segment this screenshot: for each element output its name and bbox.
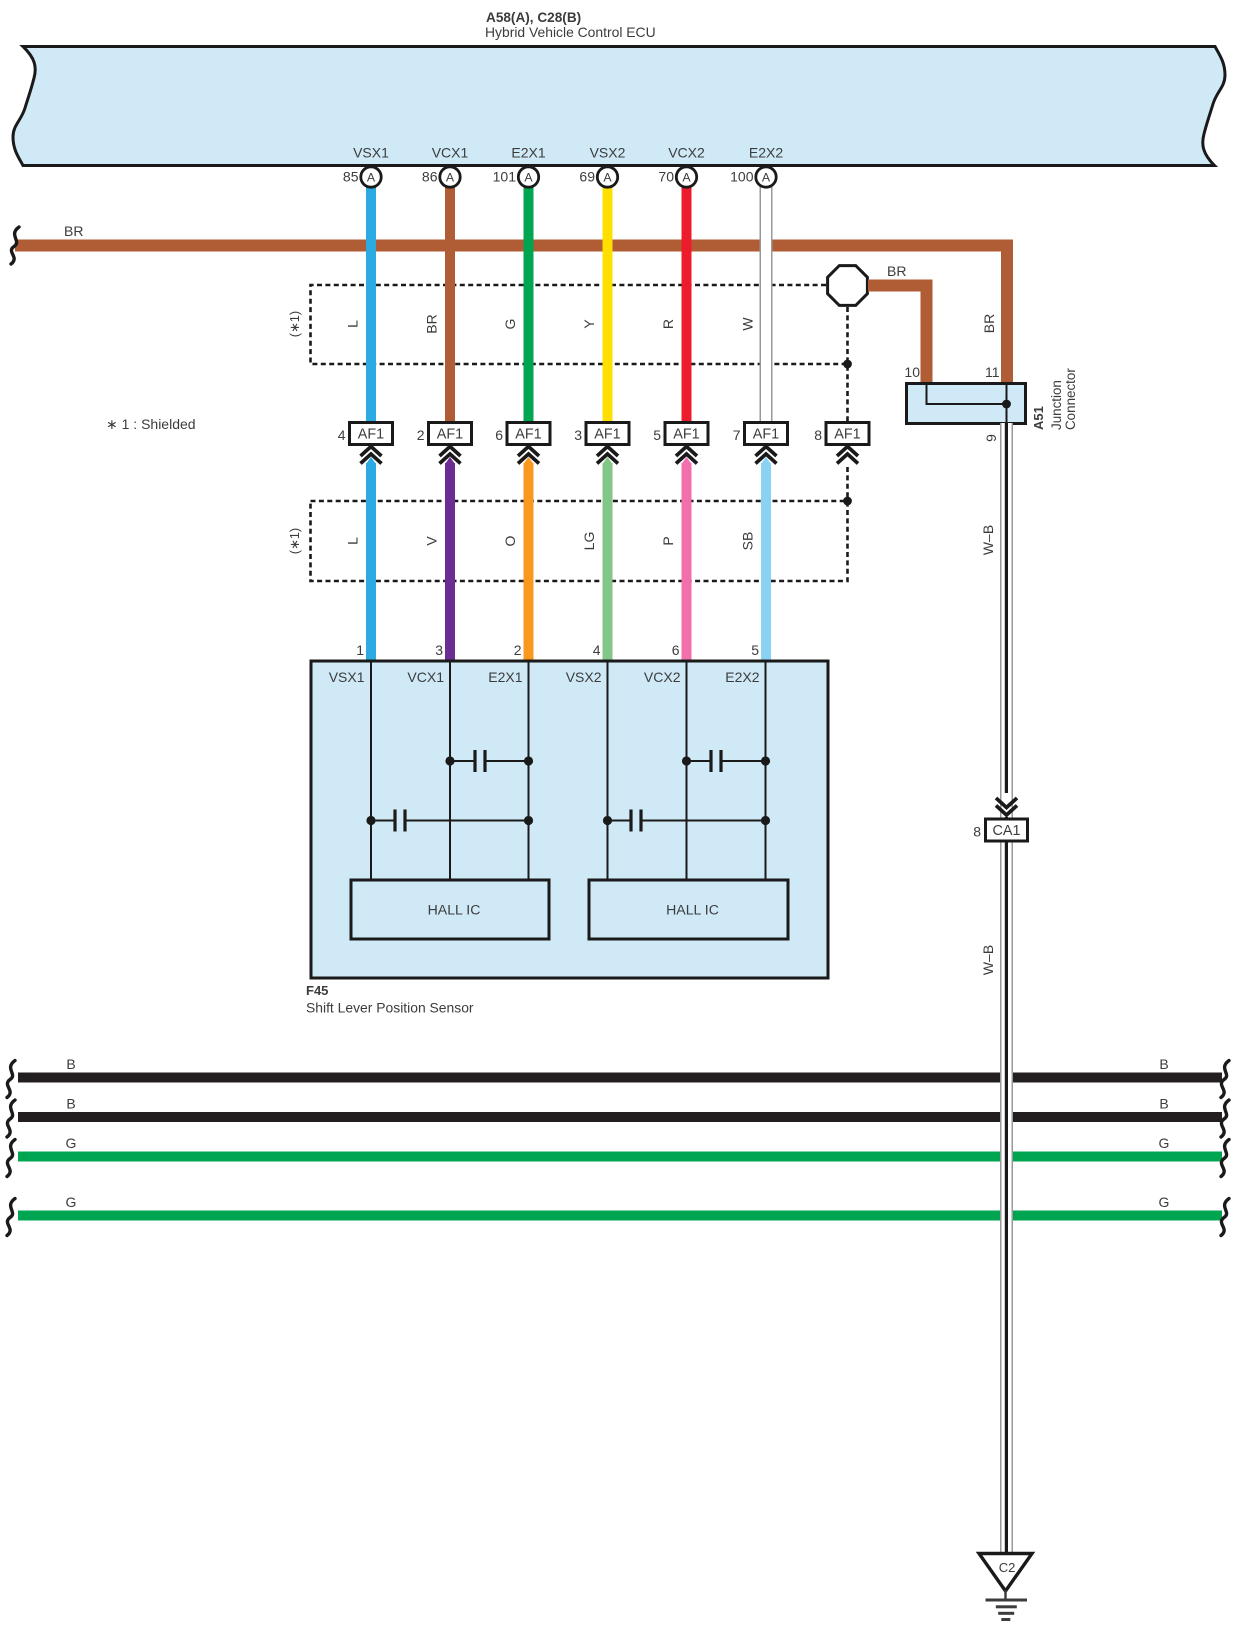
connector AF1 pin 4 bbox=[338, 423, 393, 445]
svg-text:E2X1: E2X1 bbox=[488, 669, 522, 685]
sensor internal wire for E2X1 bbox=[528, 661, 530, 880]
note *1 : Shielded bbox=[106, 416, 196, 432]
svg-text:G: G bbox=[66, 1135, 77, 1151]
squiggle left end of B bus 2 bbox=[7, 1100, 15, 1137]
svg-text:8: 8 bbox=[973, 824, 981, 840]
svg-text:A: A bbox=[446, 171, 455, 185]
off-page continuation squiggle at left end of BR wire bbox=[11, 227, 19, 264]
svg-text:E2X2: E2X2 bbox=[725, 669, 759, 685]
sensor internal wire for VSX1 bbox=[370, 661, 372, 880]
wire colour label R (upper shield) bbox=[660, 319, 676, 329]
wire W-B from junction connector pin 9 to ground C2 bbox=[1000, 423, 1013, 1553]
label G right (bus 3) bbox=[1159, 1135, 1170, 1151]
sensor internal pin label VSX2 bbox=[566, 669, 602, 685]
wire E2X1 colour G from ECU pin 101 to AF1 bbox=[524, 186, 534, 423]
svg-text:AF1: AF1 bbox=[437, 427, 463, 443]
capacitor C-a1 (between VCX1 and E2X1) bbox=[445, 750, 533, 772]
squiggle right end of B bus 2 bbox=[1221, 1100, 1229, 1137]
squiggle left end of G bus 3 bbox=[7, 1140, 15, 1177]
component F45 Shift Lever Position Sensor box bbox=[311, 661, 828, 978]
svg-text:A58(A), C28(B): A58(A), C28(B) bbox=[486, 10, 581, 25]
sensor pin number 6 bbox=[672, 642, 680, 658]
wire colour label O (lower shield) bbox=[502, 535, 518, 546]
connector chevrons above CA1 (pointing down) bbox=[996, 798, 1017, 815]
connector AF1 pin 5 bbox=[653, 423, 708, 445]
ECU pin name E2X1 bbox=[511, 145, 545, 161]
wire colour label G (upper shield) bbox=[502, 319, 518, 330]
junction dot at upper shield box corner bbox=[843, 360, 852, 369]
svg-text:A: A bbox=[682, 171, 691, 185]
svg-text:Hybrid Vehicle Control ECU: Hybrid Vehicle Control ECU bbox=[485, 24, 656, 40]
svg-text:A: A bbox=[367, 171, 376, 185]
ECU block Hybrid Vehicle Control ECU (A58/C28) bbox=[13, 47, 1225, 166]
svg-text:4: 4 bbox=[593, 642, 601, 658]
label BR (left bus) bbox=[64, 223, 83, 239]
svg-text:69: 69 bbox=[579, 169, 595, 185]
connector AF1 pin 8 bbox=[814, 423, 869, 445]
svg-text:∗ 1 : Shielded: ∗ 1 : Shielded bbox=[106, 416, 196, 432]
svg-text:(∗1): (∗1) bbox=[287, 311, 302, 337]
connector AF1 pin 7 bbox=[733, 423, 788, 445]
svg-text:O: O bbox=[502, 535, 518, 546]
svg-text:A: A bbox=[524, 171, 533, 185]
label B right (bus 1) bbox=[1159, 1056, 1168, 1072]
svg-text:B: B bbox=[66, 1096, 75, 1112]
svg-text:AF1: AF1 bbox=[515, 427, 541, 443]
sensor internal wire for VCX2 bbox=[686, 661, 688, 880]
svg-text:R: R bbox=[660, 319, 676, 329]
shield box (*1) lower dashed enclosure bbox=[311, 501, 848, 581]
capacitor C-a2 (between VSX1 and E2X1) bbox=[366, 810, 533, 832]
svg-text:VCX1: VCX1 bbox=[432, 145, 469, 161]
ground terminal C2 triangle bbox=[979, 1554, 1032, 1592]
sensor pin number 3 bbox=[435, 642, 443, 658]
wire B page-wide ground bus 2 bbox=[18, 1112, 1222, 1122]
svg-text:W–B: W–B bbox=[980, 525, 996, 555]
svg-text:70: 70 bbox=[658, 169, 674, 185]
svg-text:CA1: CA1 bbox=[993, 823, 1021, 839]
wire colour label Y (upper shield) bbox=[581, 319, 597, 329]
sensor internal pin label E2X2 bbox=[725, 669, 759, 685]
svg-text:Junction: Junction bbox=[1049, 380, 1064, 430]
HALL IC block 2 bbox=[589, 880, 788, 939]
svg-text:3: 3 bbox=[435, 642, 443, 658]
wire colour label LG (lower shield) bbox=[581, 532, 597, 551]
junction dot at lower shield box corner bbox=[843, 497, 852, 506]
svg-text:BR: BR bbox=[424, 314, 440, 333]
wire B page-wide ground bus 1 bbox=[18, 1073, 1222, 1083]
wire colour label BR (upper shield) bbox=[424, 314, 440, 333]
svg-text:(∗1): (∗1) bbox=[287, 528, 302, 554]
connector chevrons below AF1 pin 6 bbox=[518, 447, 539, 464]
svg-text:10: 10 bbox=[904, 364, 920, 380]
svg-text:BR: BR bbox=[887, 263, 906, 279]
svg-text:8: 8 bbox=[814, 427, 822, 443]
connector AF1 pin 6 bbox=[495, 423, 550, 445]
svg-text:HALL IC: HALL IC bbox=[666, 902, 719, 918]
svg-text:101: 101 bbox=[493, 169, 517, 185]
wire E2X2 colour W (white) from ECU pin 100 to AF1 bbox=[760, 186, 773, 423]
svg-text:5: 5 bbox=[751, 642, 759, 658]
ECU pin name VCX1 bbox=[432, 145, 469, 161]
svg-text:AF1: AF1 bbox=[358, 427, 384, 443]
ECU title A58(A), C28(B) bbox=[485, 10, 656, 40]
wire colour label P (lower shield) bbox=[660, 536, 676, 545]
svg-text:2: 2 bbox=[417, 427, 425, 443]
wire BR horizontal bus from off-page left to junction connector bbox=[15, 240, 1013, 385]
svg-text:Shift Lever Position Sensor: Shift Lever Position Sensor bbox=[306, 1000, 474, 1016]
svg-text:Connector: Connector bbox=[1063, 368, 1078, 430]
ECU connector pin 86 (A) for VCX1 bbox=[422, 167, 460, 187]
wire colour label SB (lower shield) bbox=[740, 532, 756, 551]
svg-text:7: 7 bbox=[733, 427, 741, 443]
squiggle right end of G bus 3 bbox=[1221, 1140, 1229, 1177]
wire LG from AF1 to shift lever position sensor pin 4 bbox=[603, 457, 613, 662]
sensor internal pin label E2X1 bbox=[488, 669, 522, 685]
svg-text:HALL IC: HALL IC bbox=[428, 902, 481, 918]
svg-text:G: G bbox=[66, 1194, 77, 1210]
svg-text:2: 2 bbox=[514, 642, 522, 658]
sensor internal pin label VCX1 bbox=[407, 669, 444, 685]
svg-text:P: P bbox=[660, 536, 676, 545]
wire P from AF1 to shift lever position sensor pin 6 bbox=[682, 457, 692, 662]
label B left (bus 1) bbox=[66, 1056, 75, 1072]
ECU pin name E2X2 bbox=[749, 145, 783, 161]
gap in W-B stripe at CA1 chevrons bbox=[1002, 793, 1012, 817]
wire VCX1 colour BR from ECU pin 86 to AF1 bbox=[445, 186, 455, 423]
svg-text:86: 86 bbox=[422, 169, 438, 185]
connector chevrons below AF1 pin 7 bbox=[756, 447, 777, 464]
HALL IC block 1 bbox=[351, 880, 549, 939]
label G left (bus 4) bbox=[66, 1194, 77, 1210]
svg-text:VSX2: VSX2 bbox=[566, 669, 602, 685]
svg-text:V: V bbox=[424, 536, 440, 546]
svg-text:B: B bbox=[1159, 1056, 1168, 1072]
label G left (bus 3) bbox=[66, 1135, 77, 1151]
label Shift Lever Position Sensor bbox=[306, 1000, 474, 1016]
wire SB from AF1 to shift lever position sensor pin 5 bbox=[761, 457, 771, 662]
sensor internal wire for E2X2 bbox=[765, 661, 767, 880]
label W-B lower (rotated) bbox=[980, 945, 996, 975]
svg-text:G: G bbox=[1159, 1135, 1170, 1151]
sensor internal pin label VSX1 bbox=[329, 669, 365, 685]
label BR (octagon branch) bbox=[887, 263, 906, 279]
svg-text:BR: BR bbox=[981, 314, 997, 333]
wire BR from shield octagon to junction connector pin 10 bbox=[868, 280, 933, 385]
svg-text:C2: C2 bbox=[999, 1560, 1016, 1575]
label Junction (rotated) bbox=[1049, 380, 1064, 430]
wire G page-wide ground bus 4 bbox=[18, 1211, 1222, 1221]
svg-text:G: G bbox=[1159, 1194, 1170, 1210]
svg-text:AF1: AF1 bbox=[594, 427, 620, 443]
svg-text:W: W bbox=[740, 317, 756, 331]
connector chevrons below AF1 pin 3 bbox=[597, 447, 618, 464]
junction pin 10 label bbox=[904, 364, 920, 380]
label BR (right vertical bus, rotated) bbox=[981, 314, 997, 333]
wire L from AF1 to shift lever position sensor pin 1 bbox=[366, 457, 376, 662]
ECU connector pin 69 (A) for VSX2 bbox=[579, 167, 617, 187]
junction pin 9 label (rotated) bbox=[983, 434, 999, 442]
ECU connector pin 101 (A) for E2X1 bbox=[493, 167, 539, 187]
svg-text:B: B bbox=[1159, 1096, 1168, 1112]
sensor pin number 1 bbox=[356, 642, 364, 658]
wire colour label W (upper shield) bbox=[740, 317, 756, 331]
capacitor C-b2 (between VSX2 and E2X2) bbox=[603, 810, 770, 832]
svg-text:L: L bbox=[345, 537, 361, 545]
svg-text:F45: F45 bbox=[306, 983, 328, 998]
label W-B upper (rotated) bbox=[980, 525, 996, 555]
squiggle right end of G bus 4 bbox=[1221, 1199, 1229, 1236]
svg-text:Y: Y bbox=[581, 319, 597, 329]
wire VSX1 colour L from ECU pin 85 to AF1 bbox=[366, 186, 376, 423]
ground symbol below C2 bbox=[986, 1590, 1028, 1621]
dashed shield drain segment between chevrons and lower shield box bbox=[846, 467, 849, 501]
wire colour label V (lower shield) bbox=[424, 536, 440, 546]
ECU pin name VSX2 bbox=[590, 145, 626, 161]
svg-text:A51: A51 bbox=[1031, 406, 1046, 430]
svg-text:VCX2: VCX2 bbox=[644, 669, 681, 685]
svg-text:1: 1 bbox=[356, 642, 364, 658]
svg-text:L: L bbox=[345, 320, 361, 328]
label (*1) upper shield bbox=[287, 311, 302, 337]
connector chevrons below AF1 pin 2 bbox=[440, 447, 461, 464]
svg-text:11: 11 bbox=[985, 364, 1000, 380]
label G right (bus 4) bbox=[1159, 1194, 1170, 1210]
connector AF1 pin 2 bbox=[417, 423, 472, 445]
svg-text:VCX1: VCX1 bbox=[407, 669, 444, 685]
label (*1) lower shield bbox=[287, 528, 302, 554]
ECU pin name VSX1 bbox=[353, 145, 389, 161]
svg-text:E2X2: E2X2 bbox=[749, 145, 783, 161]
connector chevrons below AF1 pin 4 bbox=[361, 447, 382, 464]
junction connector A51 box bbox=[907, 384, 1026, 424]
svg-text:SB: SB bbox=[740, 532, 756, 551]
svg-text:VCX2: VCX2 bbox=[668, 145, 705, 161]
squiggle right end of B bus 1 bbox=[1221, 1061, 1229, 1098]
svg-text:A: A bbox=[762, 171, 771, 185]
svg-text:3: 3 bbox=[574, 427, 582, 443]
sensor pin number 4 bbox=[593, 642, 601, 658]
svg-text:100: 100 bbox=[730, 169, 754, 185]
svg-text:G: G bbox=[502, 319, 518, 330]
connector CA1 pin 8 bbox=[973, 819, 1027, 841]
svg-text:LG: LG bbox=[581, 532, 597, 551]
shield octagon terminal (drain) bbox=[828, 266, 868, 306]
connector AF1 pin 3 bbox=[574, 423, 629, 445]
connector chevrons below AF1 pin 5 bbox=[676, 447, 697, 464]
svg-text:9: 9 bbox=[983, 434, 999, 442]
svg-text:6: 6 bbox=[495, 427, 503, 443]
ECU connector pin 100 (A) for E2X2 bbox=[730, 167, 776, 187]
svg-text:85: 85 bbox=[343, 169, 359, 185]
svg-text:W–B: W–B bbox=[980, 945, 996, 975]
svg-text:E2X1: E2X1 bbox=[511, 145, 545, 161]
ECU connector pin 70 (A) for VCX2 bbox=[658, 167, 696, 187]
junction connector internal bus bbox=[927, 385, 1011, 423]
svg-text:VSX1: VSX1 bbox=[353, 145, 389, 161]
svg-text:B: B bbox=[66, 1056, 75, 1072]
svg-text:VSX2: VSX2 bbox=[590, 145, 626, 161]
wire VCX2 colour R from ECU pin 70 to AF1 bbox=[682, 186, 692, 423]
wire G page-wide ground bus 3 bbox=[18, 1152, 1222, 1162]
sensor pin number 5 bbox=[751, 642, 759, 658]
junction pin 11 label bbox=[985, 364, 1000, 380]
label Connector (rotated) bbox=[1063, 368, 1078, 430]
sensor internal pin label VCX2 bbox=[644, 669, 681, 685]
label B right (bus 2) bbox=[1159, 1096, 1168, 1112]
svg-text:AF1: AF1 bbox=[753, 427, 779, 443]
wire colour label L (upper shield) bbox=[345, 320, 361, 328]
wire O from AF1 to shift lever position sensor pin 2 bbox=[524, 457, 534, 662]
shield box (*1) upper dashed enclosure bbox=[311, 285, 848, 422]
svg-text:5: 5 bbox=[653, 427, 661, 443]
label B left (bus 2) bbox=[66, 1096, 75, 1112]
svg-text:AF1: AF1 bbox=[673, 427, 699, 443]
capacitor C-b1 (between VCX2 and E2X2) bbox=[682, 750, 770, 772]
ECU pin name VCX2 bbox=[668, 145, 705, 161]
wire V from AF1 to shift lever position sensor pin 3 bbox=[445, 457, 455, 662]
label A51 (rotated) bbox=[1031, 406, 1046, 430]
wire VSX2 colour Y from ECU pin 69 to AF1 bbox=[603, 186, 613, 423]
wire colour label L (lower shield) bbox=[345, 537, 361, 545]
squiggle left end of G bus 4 bbox=[7, 1199, 15, 1236]
sensor pin number 2 bbox=[514, 642, 522, 658]
svg-text:4: 4 bbox=[338, 427, 346, 443]
svg-text:BR: BR bbox=[64, 223, 83, 239]
label F45 bbox=[306, 983, 328, 998]
sensor internal wire for VCX1 bbox=[449, 661, 451, 880]
svg-text:AF1: AF1 bbox=[834, 427, 860, 443]
ECU connector pin 85 (A) for VSX1 bbox=[343, 167, 381, 187]
squiggle left end of B bus 1 bbox=[7, 1061, 15, 1098]
connector chevrons below AF1 pin 8 bbox=[837, 447, 858, 464]
svg-text:A: A bbox=[603, 171, 612, 185]
svg-text:VSX1: VSX1 bbox=[329, 669, 365, 685]
svg-text:6: 6 bbox=[672, 642, 680, 658]
sensor internal wire for VSX2 bbox=[607, 661, 609, 880]
